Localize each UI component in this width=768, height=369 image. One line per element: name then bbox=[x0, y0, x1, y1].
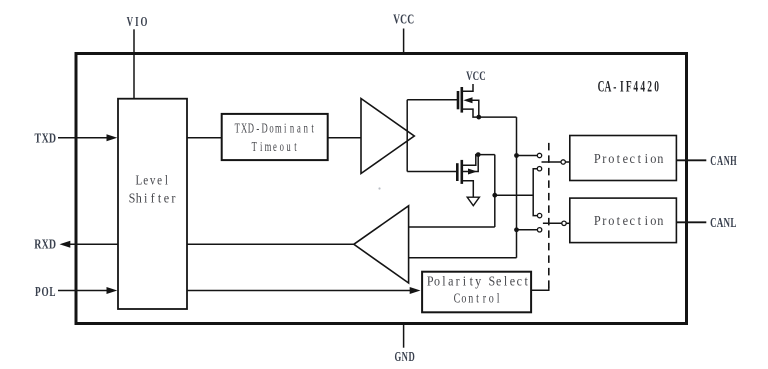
pin CANH label bbox=[710, 154, 736, 169]
switch S2 blade wire bbox=[543, 222, 562, 224]
switch S2 contact wire bbox=[517, 229, 538, 231]
switch S1 lower contact circle bbox=[537, 167, 541, 171]
nmos Q2 drain wire bbox=[462, 155, 495, 166]
svg-text:CANH: CANH bbox=[710, 154, 736, 169]
switch S2 lower contact circle bbox=[537, 228, 541, 232]
node dot pmos drain bbox=[476, 115, 481, 120]
stray fleck artifact bbox=[378, 187, 380, 189]
svg-text:TXD: TXD bbox=[35, 130, 57, 146]
wire S1 pole to protection 1 bbox=[566, 161, 570, 163]
CANH wire bbox=[676, 159, 706, 161]
svg-text:RXD: RXD bbox=[34, 236, 56, 252]
svg-text:VCC: VCC bbox=[393, 11, 414, 27]
svg-text:GND: GND bbox=[394, 349, 414, 365]
VCC wire bbox=[403, 29, 405, 54]
CANL wire bbox=[676, 221, 706, 223]
polarity select control block bbox=[422, 272, 531, 313]
svg-text:CANL: CANL bbox=[710, 214, 736, 231]
ground symbol bbox=[467, 197, 479, 206]
pmos Q1 gate bar bbox=[457, 91, 460, 109]
receiver top input wire bbox=[409, 226, 495, 228]
pmos VCC label bbox=[466, 70, 486, 84]
pin VCC label bbox=[393, 11, 414, 27]
VIO wire bbox=[133, 29, 135, 98]
switch S1 blade wire bbox=[542, 161, 561, 163]
wire timeout block to driver buffer bbox=[328, 137, 361, 139]
pmos Q1 channel bar bbox=[460, 87, 463, 113]
svg-text:CA-IF4420: CA-IF4420 bbox=[598, 78, 659, 95]
pin GND label bbox=[394, 349, 414, 365]
nmos Q2 channel bar bbox=[460, 160, 463, 184]
wire level shifter to polarity block bbox=[187, 290, 411, 292]
wire S2 pole to protection 2 bbox=[566, 222, 570, 224]
outer box (chip boundary) bbox=[76, 54, 687, 324]
polarity arrowhead bbox=[410, 287, 421, 294]
pin CANL label bbox=[710, 214, 736, 231]
node A vertical wire bbox=[494, 155, 496, 227]
svg-text:VCC: VCC bbox=[466, 70, 486, 84]
switch S2 upper contact circle bbox=[537, 213, 541, 217]
switch S1 upper contact circle bbox=[537, 153, 541, 157]
switch S1 contact wire bbox=[517, 155, 538, 157]
wire polarity output to dashed line bbox=[531, 287, 549, 291]
node dot bus bottom switch bbox=[514, 227, 519, 232]
svg-text:Protection: Protection bbox=[594, 212, 664, 228]
receiver comparator triangle bbox=[354, 206, 409, 283]
svg-text:VIO: VIO bbox=[127, 14, 148, 30]
pmos Q1 body wire with arrow bbox=[466, 100, 479, 117]
wire driver output to gates bbox=[407, 100, 457, 172]
POL wire bbox=[58, 290, 108, 292]
node dot A bbox=[492, 193, 497, 198]
pin RXD label bbox=[34, 236, 56, 252]
level shifter block bbox=[118, 99, 187, 309]
svg-text:Protection: Protection bbox=[594, 150, 664, 166]
nmos Q2 gate bar bbox=[456, 163, 459, 181]
TXD arrowhead bbox=[107, 134, 118, 141]
pmos Q1 source wire to VCC bbox=[462, 84, 473, 91]
TXD-dominant timeout block bbox=[222, 114, 328, 160]
bus vertical wire bbox=[516, 117, 518, 258]
driver buffer triangle bbox=[361, 99, 414, 174]
pin TXD label bbox=[35, 130, 57, 146]
pmos Q1 drain wire bbox=[462, 109, 517, 117]
switch S1 pole circle bbox=[561, 160, 565, 164]
dashed polarity control line bbox=[548, 143, 550, 290]
GND wire bbox=[403, 324, 405, 348]
node dot nmos drain bbox=[476, 152, 481, 157]
svg-text:Shifter: Shifter bbox=[129, 190, 176, 206]
protection block 2 bbox=[570, 198, 677, 243]
POL arrowhead bbox=[107, 287, 118, 294]
RXD arrowhead bbox=[60, 241, 71, 248]
wire level shifter to timeout block bbox=[187, 137, 222, 139]
TXD wire bbox=[58, 137, 108, 139]
pin POL label bbox=[35, 283, 56, 300]
svg-text:Polarity Select: Polarity Select bbox=[427, 273, 528, 289]
RXD wire bbox=[69, 243, 118, 245]
node dot bus top switch bbox=[514, 153, 519, 158]
nmos Q2 source wire bbox=[462, 181, 474, 198]
wire node A to switch bracket bbox=[495, 194, 533, 196]
receiver bottom input wire bbox=[409, 257, 517, 259]
receiver output wire to level shifter bbox=[187, 243, 354, 245]
nmos Q2 body wire with arrow bbox=[462, 155, 478, 172]
switch S2 pole circle bbox=[562, 221, 566, 225]
svg-text:POL: POL bbox=[35, 283, 56, 300]
bracket wire joining middle contacts bbox=[533, 169, 537, 216]
chip label CA-IF4420 bbox=[598, 78, 659, 95]
protection block 1 bbox=[570, 136, 677, 181]
pin VIO label bbox=[127, 14, 148, 30]
